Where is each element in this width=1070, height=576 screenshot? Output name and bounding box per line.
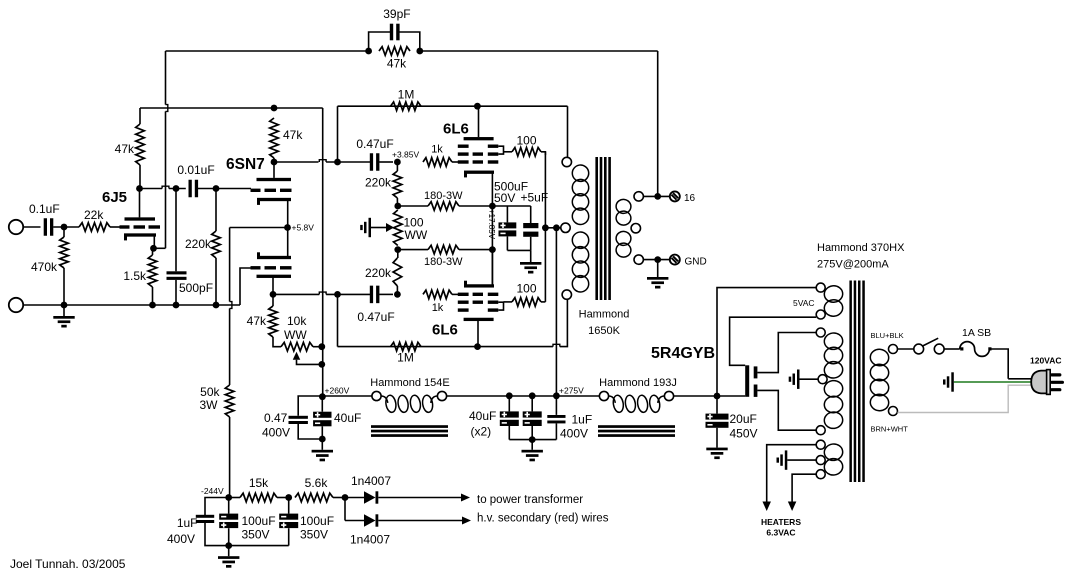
capacitor 40uF (x2) a bbox=[508, 396, 510, 412]
transformer 1650K primary center tap terminal bbox=[561, 223, 570, 232]
diode 1n4007 a bbox=[345, 497, 364, 499]
resistor 47k lower plate load bbox=[272, 294, 274, 306]
plug 120VAC bbox=[1031, 371, 1047, 394]
svg-text:120VAC: 120VAC bbox=[1030, 356, 1062, 366]
capacitor 0.01uF bbox=[189, 180, 192, 198]
wire 1M rail lower bbox=[337, 294, 339, 346]
transformer 370HX 5V winding bbox=[816, 283, 825, 292]
wire heater b bbox=[792, 474, 816, 502]
screen bracket lower bbox=[498, 302, 503, 310]
tube 6J5 grid bbox=[120, 225, 130, 228]
svg-text:400V: 400V bbox=[560, 427, 588, 441]
wire cathode to feedback bbox=[154, 247, 166, 249]
node cathodes +5.8V bbox=[284, 224, 291, 231]
node +260V bbox=[319, 393, 326, 400]
wire secondary 16 ohm bbox=[643, 195, 669, 197]
node 40uF a bbox=[506, 392, 513, 399]
svg-text:GND: GND bbox=[685, 257, 707, 268]
svg-text:1n4007: 1n4007 bbox=[350, 533, 390, 547]
svg-text:180-3W: 180-3W bbox=[424, 256, 463, 268]
svg-text:-244V: -244V bbox=[201, 486, 224, 496]
tube 6J5 cathode bbox=[124, 233, 156, 236]
node filter1 gnd bbox=[319, 436, 326, 443]
resistor 50k 3W bbox=[225, 385, 234, 417]
transformer 1650K primary top terminal bbox=[562, 157, 571, 166]
svg-text:Hammond 193J: Hammond 193J bbox=[599, 377, 677, 389]
resistor 220k upper bbox=[396, 162, 398, 171]
svg-text:40uF: 40uF bbox=[334, 411, 361, 425]
capacitor 0.47uF upper bbox=[370, 153, 373, 171]
switch power bbox=[914, 344, 924, 354]
svg-text:220k: 220k bbox=[365, 266, 392, 280]
svg-text:400V: 400V bbox=[262, 426, 290, 440]
capacitor 500uF 50V bbox=[506, 206, 508, 222]
svg-text:5VAC: 5VAC bbox=[793, 298, 815, 308]
svg-text:350V: 350V bbox=[242, 528, 270, 542]
svg-text:350V: 350V bbox=[300, 528, 328, 542]
resistor 1.5k bbox=[152, 251, 154, 255]
node 6SN7 lower plate bbox=[270, 291, 277, 298]
ground bias bbox=[228, 546, 230, 557]
transformer 370HX HV center tap bbox=[818, 375, 827, 384]
node 500pF tap bbox=[173, 185, 180, 192]
capacitor 20uF 450V bbox=[716, 396, 718, 414]
ground cathode bypass bbox=[530, 250, 532, 262]
node 47k 6SN7 plate load top bbox=[271, 105, 278, 112]
resistor 15k bbox=[229, 497, 240, 499]
wire cap bottom bus bbox=[507, 249, 530, 251]
transformer 370HX HV winding lower bbox=[823, 380, 843, 399]
resistor 1M upper bbox=[391, 102, 422, 111]
node bias gnd bbox=[225, 542, 232, 549]
svg-text:20uF: 20uF bbox=[730, 412, 757, 426]
wire cathode node to tail bbox=[230, 227, 288, 229]
node pot top bbox=[394, 203, 401, 210]
node OPT center tap B+ bbox=[553, 224, 560, 231]
wire plate rail to OPT bbox=[567, 106, 569, 157]
svg-text:15k: 15k bbox=[249, 476, 269, 490]
capacitor 0.47uF lower bbox=[370, 286, 373, 304]
svg-text:+3.85V: +3.85V bbox=[392, 150, 420, 160]
node lower grid bbox=[334, 291, 341, 298]
svg-text:500pF: 500pF bbox=[179, 281, 213, 295]
resistor 47k plate load 6J5 bbox=[139, 108, 141, 124]
wire OPT center tap to B+ bbox=[556, 227, 560, 229]
tube 6SN7 lower plate bbox=[257, 275, 292, 278]
ground bbox=[63, 305, 65, 316]
svg-text:180-3W: 180-3W bbox=[424, 190, 463, 202]
tube 6L6 lower screen grid bbox=[458, 301, 469, 304]
svg-text:1M: 1M bbox=[398, 88, 415, 102]
node fb right bbox=[416, 48, 423, 55]
tube 6L6 upper cathode bbox=[464, 171, 494, 174]
svg-text:1n4007: 1n4007 bbox=[351, 474, 391, 488]
node ground-1.5k bbox=[149, 302, 156, 309]
pot 10k wiper arrow bbox=[293, 352, 301, 360]
pot 100 wiper arrow bbox=[386, 223, 394, 232]
choke Hammond 154E bbox=[372, 391, 381, 400]
node filter2 gnd bbox=[529, 436, 536, 443]
wire choke to caps bbox=[447, 395, 600, 397]
svg-text:400V: 400V bbox=[167, 532, 195, 546]
tube 6SN7 upper grid bbox=[251, 189, 261, 192]
svg-text:0.1uF: 0.1uF bbox=[29, 202, 60, 216]
svg-text:WW: WW bbox=[405, 228, 428, 242]
node screen-B+ bbox=[542, 224, 549, 231]
svg-text:6.3VAC: 6.3VAC bbox=[766, 528, 795, 538]
svg-text:+5uF: +5uF bbox=[521, 191, 549, 205]
svg-text:100uF: 100uF bbox=[242, 514, 276, 528]
svg-text:47k: 47k bbox=[247, 314, 267, 328]
resistor 220k grid leak 6SN7 bbox=[215, 189, 217, 232]
capacitor 100uF 350V b bbox=[288, 498, 290, 514]
tube 6L6 upper control grid bbox=[458, 160, 469, 163]
screw terminal GND bbox=[670, 255, 680, 265]
wire 1M rail upper bbox=[338, 105, 568, 107]
wire upper plate to HV top bbox=[757, 333, 816, 373]
wire to 6J5 grid bbox=[110, 226, 121, 228]
capacitor 1uF 400V bias bbox=[205, 498, 229, 516]
resistor 100 screen lower bbox=[504, 301, 513, 303]
svg-text:1.5k: 1.5k bbox=[123, 269, 147, 283]
wire cathode bus bbox=[492, 205, 530, 207]
svg-text:100: 100 bbox=[516, 282, 536, 296]
node rectifier output bbox=[714, 393, 721, 400]
wire grid drop bbox=[337, 106, 339, 162]
svg-text:Hammond 154E: Hammond 154E bbox=[370, 377, 450, 389]
wire feedback to output bbox=[420, 50, 658, 52]
tube 6SN7 upper cathode bbox=[257, 198, 291, 201]
svg-text:1k: 1k bbox=[432, 302, 444, 314]
node bias mid bbox=[285, 494, 292, 501]
tube 6L6 lower beam plates bbox=[458, 308, 469, 311]
svg-text:220k: 220k bbox=[185, 237, 212, 251]
resistor 1k upper grid stopper bbox=[423, 158, 452, 167]
svg-text:47k: 47k bbox=[387, 57, 407, 71]
node -244V bbox=[225, 494, 232, 501]
node 6J5 plate bbox=[136, 185, 143, 192]
svg-text:5.6k: 5.6k bbox=[305, 476, 329, 490]
capacitor 40uF (x2) b bbox=[531, 396, 533, 412]
resistor 1k lower grid stopper bbox=[423, 290, 452, 299]
node +275V bbox=[553, 392, 560, 399]
tube 6SN7 lower grid bbox=[251, 266, 261, 269]
node +3.85V bbox=[394, 159, 401, 166]
svg-text:50V: 50V bbox=[494, 191, 515, 205]
ground filter2 bbox=[531, 440, 533, 450]
transformer 1650K secondary winding bbox=[615, 199, 631, 215]
svg-text:to power transformer: to power transformer bbox=[477, 494, 583, 506]
capacitor 100uF 350V a bbox=[228, 498, 230, 514]
transformer 1650K primary winding bbox=[571, 164, 589, 182]
svg-text:16: 16 bbox=[684, 193, 696, 204]
wire bbox=[379, 161, 393, 163]
svg-text:Joel Tunnah. 03/2005: Joel Tunnah. 03/2005 bbox=[10, 557, 126, 571]
svg-text:+275V: +275V bbox=[559, 386, 584, 396]
svg-text:5R4GYB: 5R4GYB bbox=[651, 345, 715, 362]
svg-text:+5.8V: +5.8V bbox=[292, 223, 315, 233]
svg-text:1M: 1M bbox=[397, 351, 414, 365]
svg-text:6L6: 6L6 bbox=[432, 322, 458, 339]
svg-text:50k: 50k bbox=[200, 385, 220, 399]
svg-text:220k: 220k bbox=[365, 176, 392, 190]
node 16 ohm tap bbox=[654, 193, 661, 200]
tube 6L6 lower control grid bbox=[458, 293, 469, 296]
svg-text:47k: 47k bbox=[283, 128, 303, 142]
wire B+ rail vertical bbox=[322, 108, 324, 397]
transformer 1650K secondary top terminal bbox=[634, 192, 643, 201]
wire choke2 to rectifier bbox=[674, 395, 746, 397]
svg-text:(x2): (x2) bbox=[471, 425, 492, 439]
resistor 1M lower bbox=[391, 342, 422, 351]
svg-text:39pF: 39pF bbox=[383, 7, 410, 21]
svg-text:450V: 450V bbox=[730, 427, 758, 441]
svg-text:BRN+WHT: BRN+WHT bbox=[871, 425, 909, 434]
capacitor 39pF bbox=[369, 32, 391, 51]
wire fuse to plug hot bbox=[989, 349, 1008, 379]
svg-text:1uF: 1uF bbox=[177, 516, 198, 530]
ground 6.3V center tap bbox=[785, 450, 788, 469]
wire plate to coupling cap bbox=[140, 188, 163, 190]
node 6J5 cathode bbox=[150, 245, 157, 252]
node fb left bbox=[365, 48, 372, 55]
svg-text:22k: 22k bbox=[84, 208, 104, 222]
capacitor 40uF 400V first filter bbox=[321, 397, 323, 412]
wire to diode b bbox=[344, 498, 346, 521]
wire to 6SN7 grid bbox=[198, 188, 251, 190]
capacitor 0.1uF bbox=[44, 218, 47, 236]
transformer 1650K secondary bottom terminal bbox=[634, 255, 643, 264]
svg-text:100: 100 bbox=[516, 134, 536, 148]
node input junction bbox=[61, 224, 68, 231]
wire filter2 bottom bus bbox=[509, 439, 556, 441]
potentiometer 10k WW bbox=[281, 342, 313, 351]
node pot end B+ rail bbox=[318, 343, 325, 350]
svg-text:275V@200mA: 275V@200mA bbox=[817, 259, 889, 271]
screen bracket upper bbox=[498, 146, 503, 154]
svg-text:6J5: 6J5 bbox=[102, 189, 127, 206]
resistor 47k plate load 6SN7 bbox=[270, 118, 279, 158]
transformer 370HX 6.3V winding bbox=[816, 440, 825, 449]
wire B+ rail top bbox=[140, 107, 323, 109]
svg-text:6SN7: 6SN7 bbox=[226, 156, 265, 173]
node upper grid bbox=[334, 159, 341, 166]
transformer 1650K primary bottom terminal bbox=[562, 290, 571, 299]
resistor 5.6k bbox=[295, 493, 333, 502]
wire secondary gnd bbox=[643, 259, 669, 261]
transformer 370HX HV winding upper bbox=[816, 328, 825, 337]
tube 5R4 plate lower bbox=[754, 385, 758, 397]
tube 6L6 lower cathode bbox=[464, 284, 494, 287]
node lower 220k tap bbox=[394, 291, 401, 298]
wire switch to fuse bbox=[944, 348, 960, 350]
node ground-470k bbox=[61, 302, 68, 309]
node ground-500pF bbox=[173, 302, 180, 309]
choke Hammond 193J bbox=[599, 391, 608, 400]
node 40uF b bbox=[529, 392, 536, 399]
resistor 100 screen upper bbox=[504, 151, 513, 153]
capacitor 500pF bbox=[175, 189, 177, 272]
svg-text:0.47uF: 0.47uF bbox=[357, 310, 394, 324]
tube 6SN7 lower cathode bbox=[287, 228, 289, 258]
wire 5VAC bottom to filament bbox=[730, 317, 817, 365]
tube 6L6 lower plate bbox=[464, 318, 494, 321]
node cathode-180 upper bbox=[489, 203, 496, 210]
svg-text:1A SB: 1A SB bbox=[962, 327, 991, 339]
wire grid node bbox=[274, 161, 319, 163]
svg-text:HEATERS: HEATERS bbox=[761, 517, 801, 527]
wire bbox=[379, 293, 393, 295]
wire 260V rail to choke bbox=[322, 395, 371, 397]
wire ground rail up to 6SN7 lower grid bbox=[240, 268, 257, 305]
svg-text:Hammond 370HX: Hammond 370HX bbox=[817, 242, 905, 254]
wire to grid bbox=[452, 293, 459, 295]
wire bbox=[53, 226, 79, 228]
wire feedback drop to 6J5 cathode bbox=[165, 51, 167, 105]
wire feedback top bbox=[166, 50, 369, 52]
input jack tip terminal bbox=[9, 220, 23, 234]
node wiper B+ rail bbox=[318, 361, 325, 368]
svg-text:+17.85V: +17.85V bbox=[487, 209, 496, 240]
wire B+ vertical 275V bbox=[555, 228, 557, 396]
node 6L6 plate-rail bbox=[474, 103, 481, 110]
svg-text:+260V: +260V bbox=[325, 386, 350, 396]
svg-text:WW: WW bbox=[284, 328, 307, 342]
capacitor 1uF 400V bbox=[555, 396, 557, 415]
transformer 1650K secondary mid terminal bbox=[631, 224, 640, 233]
capacitor 0.47uF 400V bbox=[298, 396, 322, 416]
ground mains safety bbox=[951, 372, 954, 391]
ground hum pot bbox=[369, 218, 372, 237]
svg-text:1uF: 1uF bbox=[572, 413, 593, 427]
ground filter1 bbox=[321, 439, 323, 450]
wire bbox=[23, 226, 40, 228]
tube 6J5 plate bbox=[125, 217, 156, 220]
node 6SN7 plate bbox=[271, 159, 278, 166]
resistor 220k lower bbox=[396, 286, 398, 294]
svg-text:47k: 47k bbox=[115, 142, 135, 156]
svg-text:h.v. secondary (red) wires: h.v. secondary (red) wires bbox=[477, 513, 609, 525]
resistor 47k feedback bbox=[379, 47, 410, 56]
wire 5VAC top to B+ node bbox=[717, 288, 816, 396]
svg-text:40uF: 40uF bbox=[469, 409, 496, 423]
node 220k tap bbox=[213, 185, 220, 192]
wire cathode lower 6L6 bbox=[491, 250, 493, 286]
svg-text:0.47: 0.47 bbox=[264, 411, 288, 425]
screw terminal 16 bbox=[670, 191, 680, 201]
wire primary to switch bbox=[898, 348, 914, 350]
ground HV center tap bbox=[797, 370, 800, 389]
cord hot lead bbox=[1008, 378, 1031, 380]
transformer 370HX primary winding bbox=[889, 345, 898, 354]
svg-text:470k: 470k bbox=[31, 260, 58, 274]
node diode tap bbox=[342, 494, 349, 501]
svg-text:Hammond: Hammond bbox=[579, 309, 630, 321]
ground output bbox=[657, 260, 659, 277]
input jack sleeve terminal bbox=[9, 298, 23, 312]
capacitor +5uF bbox=[530, 206, 532, 223]
svg-text:3W: 3W bbox=[200, 398, 219, 412]
tube 6L6 upper screen grid bbox=[458, 152, 469, 155]
cord neutral lead grey bbox=[898, 385, 1032, 412]
svg-text:0.47uF: 0.47uF bbox=[356, 137, 393, 151]
svg-text:0.01uF: 0.01uF bbox=[177, 163, 214, 177]
svg-text:6L6: 6L6 bbox=[443, 121, 469, 138]
svg-text:1650K: 1650K bbox=[588, 325, 620, 337]
tube 6L6 upper plate bbox=[464, 137, 494, 140]
transformer 1650K core bbox=[595, 157, 598, 300]
wire screen feed vertical bbox=[544, 152, 546, 302]
resistor 22k bbox=[79, 223, 110, 232]
resistor 180-3W lower bbox=[398, 249, 428, 251]
ground rail wire bbox=[23, 304, 240, 306]
node ground-220k bbox=[213, 302, 220, 309]
node lower 6L6 plate bbox=[474, 343, 481, 350]
fuse 1A SB bbox=[960, 342, 990, 357]
tube 6SN7 upper plate bbox=[273, 162, 275, 178]
node pot bottom bbox=[394, 246, 401, 253]
resistor 470k bbox=[63, 227, 65, 237]
node cathode-180 lower bbox=[489, 246, 496, 253]
wire screen to center tap bbox=[545, 227, 556, 229]
svg-text:100uF: 100uF bbox=[300, 514, 334, 528]
wire lower grid node bbox=[273, 293, 319, 295]
node gnd tap bbox=[654, 256, 661, 263]
wire heater a bbox=[767, 445, 817, 502]
tube 5R4 filament bbox=[745, 365, 749, 397]
diode 1n4007 b bbox=[345, 520, 364, 522]
resistor 180-3W upper bbox=[398, 205, 428, 207]
potentiometer 100 WW vertical bbox=[394, 210, 403, 246]
svg-text:1k: 1k bbox=[431, 144, 443, 156]
tube 6L6 upper beam plates bbox=[458, 145, 469, 148]
wire lower plate to HV bottom bbox=[757, 390, 816, 430]
svg-text:10k: 10k bbox=[287, 314, 307, 328]
transformer 370HX core bbox=[849, 281, 852, 483]
tube 5R4 plate upper bbox=[754, 366, 758, 378]
svg-text:BLU+BLK: BLU+BLK bbox=[871, 331, 904, 340]
wire to grid bbox=[452, 161, 459, 163]
wire tail down to 50k bbox=[229, 228, 231, 302]
cord ground lead green bbox=[954, 381, 1032, 383]
wire cathode upper 6L6 bbox=[491, 172, 493, 206]
